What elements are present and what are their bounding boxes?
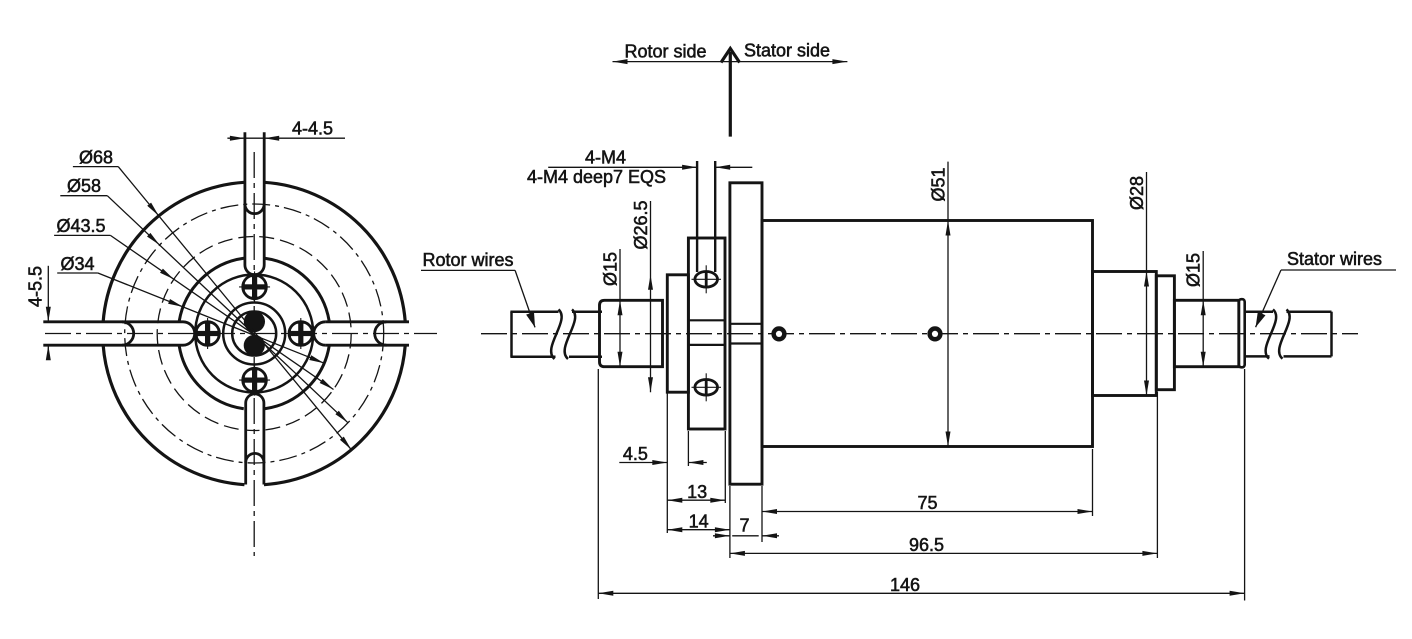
svg-text:4.5: 4.5: [623, 444, 648, 464]
svg-text:4-M4 deep7 EQS: 4-M4 deep7 EQS: [527, 167, 666, 187]
svg-text:Ø68: Ø68: [79, 148, 113, 168]
svg-text:Ø43.5: Ø43.5: [56, 216, 105, 236]
svg-text:Ø15: Ø15: [601, 252, 621, 286]
svg-text:Rotor side: Rotor side: [624, 42, 706, 62]
svg-text:Ø26.5: Ø26.5: [631, 200, 651, 249]
svg-text:Rotor wires: Rotor wires: [422, 250, 513, 270]
svg-text:14: 14: [689, 512, 709, 532]
svg-text:Ø34: Ø34: [60, 254, 94, 274]
svg-text:7: 7: [739, 516, 749, 536]
svg-text:4-M4: 4-M4: [585, 148, 626, 168]
svg-text:96.5: 96.5: [909, 535, 944, 555]
svg-text:Ø58: Ø58: [67, 176, 101, 196]
svg-text:Stator wires: Stator wires: [1287, 249, 1382, 269]
svg-text:13: 13: [687, 482, 707, 502]
svg-text:4-4.5: 4-4.5: [292, 119, 333, 139]
svg-text:Stator side: Stator side: [744, 41, 830, 61]
svg-text:146: 146: [890, 575, 920, 595]
svg-text:4-5.5: 4-5.5: [26, 266, 46, 307]
svg-text:Ø51: Ø51: [929, 167, 949, 201]
svg-text:Ø15: Ø15: [1184, 253, 1204, 287]
svg-text:75: 75: [917, 493, 937, 513]
svg-text:Ø28: Ø28: [1127, 176, 1147, 210]
